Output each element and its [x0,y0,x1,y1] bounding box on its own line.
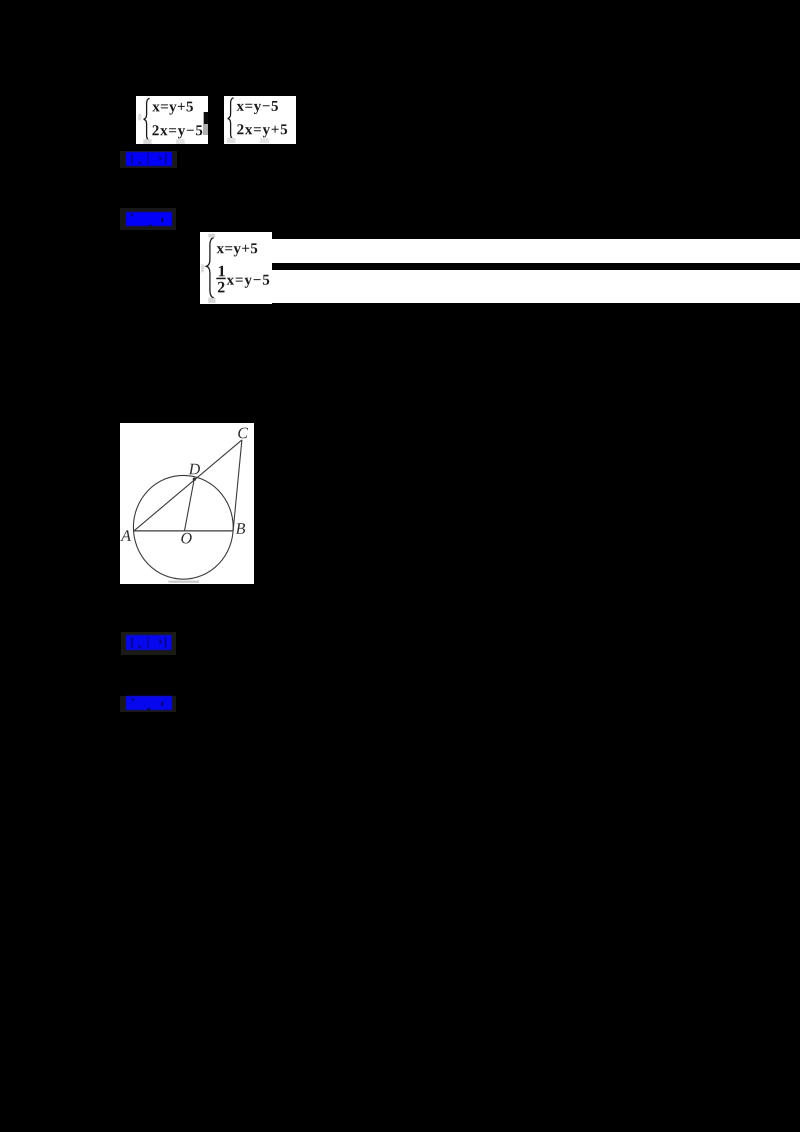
label O [181,533,191,544]
circle O [133,476,233,580]
blue label 1 (analysis tag) [120,151,177,168]
equation image box 1: system {x=y+5; 2x=y-5} [136,96,208,144]
left brace of system 3 [206,237,214,298]
label D [188,464,199,474]
line B to C [233,440,242,531]
label A [120,530,131,541]
line O to D [184,480,194,531]
selection strip line 2 (white) [271,270,800,303]
comma separator mark between systems [203,112,208,135]
fraction bar [216,277,225,279]
equation line 1: x=y-5 [236,101,277,114]
fraction 1/2 numerator [219,265,225,276]
fraction denominator 2 [218,281,225,292]
left brace of system 2 [227,97,233,138]
left brace of system 1 [144,98,150,140]
label B [235,523,244,533]
blue label 2 (answer tag) [120,208,176,230]
faint bottom smudge [168,581,199,583]
blue label 4 (answer tag) [120,696,176,713]
label C [238,428,248,439]
gray resize artifacts [143,139,151,144]
diameter AB [133,530,232,532]
geometry figure box: circle O with diameter AB, point D, external point C [120,423,255,583]
line A to C through D [133,440,241,531]
equation line 2: 2x=y-5 [153,125,203,138]
equation line 2 rest: x=y-5 [227,274,270,287]
equation image box 2: system {x=y-5; 2x=y+5} [224,96,296,144]
selection strip line 1 (white) [271,239,800,263]
equation line 2: 2x=y+5 [237,124,287,137]
equation line 1: x=y+5 [217,243,258,256]
blue label 3 (analysis tag) [121,632,176,655]
equation line 1: x=y+5 [153,101,193,114]
junction dot at D [192,478,195,481]
gray artifacts [208,233,215,237]
equation image box 3: system {x=y+5; (1/2)x=y-5} [200,232,272,304]
